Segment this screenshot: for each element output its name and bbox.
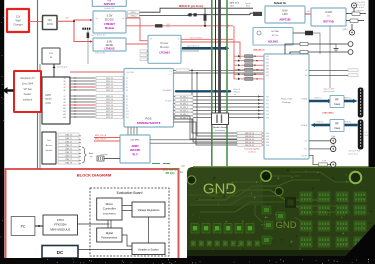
svg-text:G6: G6 (63, 90, 65, 92)
net labels top (128, 11, 140, 14)
svg-text:GN0: GN0 (266, 133, 269, 135)
svg-text:Connector x2: Connector x2 (348, 153, 358, 156)
svg-text:(GND): (GND) (343, 29, 348, 31)
svg-text:GP1: GP1 (266, 59, 269, 61)
dcdc 5.0V LT8610S (93, 38, 126, 51)
svg-text:P4: P4 (126, 90, 128, 92)
svg-text:on the xx: on the xx (248, 150, 255, 153)
wire ADM out B (150, 142, 237, 144)
svg-text:Package: Package (282, 102, 291, 104)
svg-text:DEBUG IF (p/n 4xxxx): DEBUG IF (p/n 4xxxx) (179, 5, 204, 8)
wire debug pair B (140, 13, 254, 15)
svg-text:G14: G14 (63, 117, 66, 119)
svg-text:-5 GHz: -5 GHz (325, 11, 333, 14)
svg-text:GN1: GN1 (266, 136, 269, 138)
block digital potentiometer (97, 228, 122, 242)
svg-text:SIG_UPT3_MON: SIG_UPT3_MON (190, 37, 203, 39)
12V wall charger (7, 9, 29, 32)
svg-text:P11: P11 (126, 114, 129, 116)
svg-text:Vin: Vin (96, 18, 98, 20)
svg-text:HDMI Tx+: HDMI Tx+ (344, 98, 351, 100)
svg-text:PiOS: PiOS (145, 117, 151, 121)
net label T7 (58, 158, 79, 161)
svg-text:V1: V1 (150, 39, 152, 41)
left black bar (0, 0, 4, 264)
svg-text:12V: 12V (16, 15, 21, 19)
wire input (104, 158, 120, 160)
raspberry pi note (14, 71, 41, 112)
svg-text:FTDI: FTDI (57, 218, 64, 222)
ferrite bead FB1 (253, 12, 262, 16)
downconverter ADMV (120, 135, 150, 163)
svg-text:In Stock 3rd: In Stock 3rd (95, 34, 106, 37)
svg-text:P0: P0 (126, 78, 128, 80)
svg-text:I.4.B: I.4.B (364, 132, 367, 134)
svg-text:CK: CK (305, 70, 307, 72)
block FTDI module (43, 215, 78, 235)
wire 3v3 to monitor (126, 18, 148, 41)
block voltage regulators (132, 202, 165, 217)
svg-text:"W"/Pi: "W"/Pi (45, 98, 52, 101)
wire FTDI-MC (78, 223, 110, 225)
net label GPB2 (234, 64, 238, 66)
svg-text:GPIO_2: GPIO_2 (131, 16, 137, 18)
svg-text:FT4232H: FT4232H (54, 223, 67, 227)
wire GPIO7 (70, 101, 96, 103)
svg-text:G11: G11 (63, 108, 66, 110)
svg-text:(later version): (later version) (324, 90, 335, 93)
svg-text:soldered: soldered (23, 99, 33, 102)
svg-text:Micro: Micro (106, 202, 114, 206)
PCB traces (195, 190, 330, 200)
svg-text:HDMI Tx+: HDMI Tx+ (314, 98, 321, 100)
wire sys clk (309, 70, 348, 72)
svg-text:Charger: Charger (13, 23, 23, 27)
svg-text:5.6V: 5.6V (282, 9, 288, 13)
svg-text:PS_MIO_5: PS_MIO_5 (180, 114, 188, 116)
svg-text:DC/DC: DC/DC (106, 44, 114, 47)
svg-text:GP2: GP2 (266, 62, 269, 64)
svg-text:LDO: LDO (282, 12, 287, 16)
svg-text:1u0 min grab: 1u0 min grab (57, 67, 68, 69)
svg-text:G4: G4 (63, 84, 65, 86)
RF coax coupler 2 (330, 120, 344, 132)
wire data2 (174, 103, 265, 105)
bus green B (226, 0, 228, 167)
PCB light patch (188, 168, 263, 206)
svg-text:GN3: GN3 (266, 142, 269, 144)
svg-text:LTC2991: LTC2991 (159, 51, 170, 55)
svg-text:GP5: GP5 (266, 72, 269, 74)
net label T8 (58, 161, 79, 164)
wire MC-VReg (122, 205, 132, 207)
svg-text:PS2: PS2 (266, 103, 269, 105)
ground GND1 (330, 44, 336, 48)
wire monitor out A (181, 38, 233, 40)
svg-text:LT8610S: LT8610S (104, 48, 114, 51)
svg-text:Zero 2W/4: Zero 2W/4 (22, 82, 34, 85)
svg-text:Default On: Default On (274, 2, 287, 5)
svg-text:12V: 12V (47, 18, 52, 22)
svg-text:GND_NL_04: GND_NL_04 (245, 145, 254, 147)
resistor R9 (319, 163, 328, 166)
SMA J11 (348, 50, 353, 55)
wire GPIO5 (70, 95, 96, 97)
svg-text:GATE: GATE (230, 5, 236, 8)
svg-text:OT CNKT: OT CNKT (165, 101, 172, 103)
svg-text:GP6: GP6 (266, 75, 269, 77)
wire data5 (174, 113, 265, 115)
svg-text:Coax: Coax (334, 126, 341, 130)
svg-text:Access: Access (46, 144, 52, 147)
svg-text:G9: G9 (63, 102, 65, 104)
svg-text:ADL5801: ADL5801 (268, 41, 279, 44)
svg-text:PC: PC (21, 225, 26, 229)
PCB photo board (187, 167, 375, 256)
wire GPIO11 (70, 113, 96, 115)
svg-text:Potentiometers: Potentiometers (101, 237, 118, 240)
PCB LED component row (191, 224, 199, 234)
RF coax coupler 1 (330, 96, 344, 108)
net label GND_NL1 (237, 135, 262, 138)
green rail line (37, 0, 39, 169)
boost converter ADP1607 (92, 0, 126, 6)
wire 5v to monitor (126, 43, 148, 45)
block DC (42, 246, 78, 259)
net label T0 (58, 133, 79, 136)
wire data6 (174, 117, 265, 119)
svg-text:UltraRAM B: UltraRAM B (163, 89, 173, 92)
PCB IC cluster right (300, 192, 312, 202)
svg-text:x.y: x.y (90, 156, 93, 158)
PCB small parts row (191, 241, 195, 246)
svg-text:GN4: GN4 (266, 145, 269, 147)
wire GPIO1 (70, 80, 96, 82)
sense connector strip (82, 28, 84, 30)
SMA J6 (351, 24, 353, 30)
svg-text:use: use (234, 94, 237, 96)
svg-text:rev B draft: rev B draft (356, 6, 364, 9)
svg-text:Raspberry Pi: Raspberry Pi (21, 77, 35, 80)
net label GND_NL0 (237, 132, 262, 135)
evaluation board dashed box (90, 188, 169, 256)
svg-text:GP3: GP3 (266, 66, 269, 68)
svg-text:ADP1607: ADP1607 (104, 2, 116, 6)
svg-text:600 MHz: 600 MHz (131, 140, 140, 142)
svg-text:5MW LED sel: 5MW LED sel (253, 50, 265, 52)
wire debug pair A (140, 8, 254, 12)
RF connector P2 (358, 120, 364, 150)
wire PC-FTDI (35, 225, 43, 227)
wire 12V distribution (57, 20, 91, 21)
svg-text:P3: P3 (126, 87, 128, 89)
svg-text:HDMI Rx-: HDMI Rx- (317, 122, 324, 124)
PCB QFP chip (285, 197, 296, 208)
wire 12V sense (126, 25, 233, 27)
svg-text:RF: RF (335, 98, 339, 102)
wire MCU-TX (174, 69, 265, 71)
svg-text:TRN conn kit: TRN conn kit (355, 4, 365, 7)
svg-text:MA: MA (179, 170, 183, 174)
small box 5V0 (42, 48, 60, 64)
PCB vias and specks (306, 171, 307, 172)
svg-text:(STM32F4RET6): (STM32F4RET6) (103, 214, 116, 216)
svg-text:7 Unit: 7 Unit (331, 135, 336, 138)
svg-text:"PL7": "PL7" (132, 154, 139, 157)
svg-text:TP5: TP5 (167, 27, 170, 29)
vertical branch B (197, 73, 237, 136)
bus black (215, 0, 217, 113)
svg-text:DC/DC: DC/DC (105, 18, 114, 22)
svg-text:Voltage Regulators: Voltage Regulators (138, 208, 161, 212)
svg-text:STM32H743ZGT6: STM32H743ZGT6 (137, 121, 161, 125)
svg-text:Wall: Wall (16, 19, 21, 23)
svg-text:P6: P6 (126, 99, 128, 101)
wire MCU bottom stubs (127, 127, 129, 135)
svg-text:PS5: PS5 (266, 114, 269, 116)
svg-text:Coax: Coax (334, 102, 341, 106)
wire GPIO2 (70, 83, 96, 85)
RX navy arrow (344, 124, 358, 127)
wire ldo out (305, 13, 311, 15)
block header or socket (132, 243, 165, 255)
svg-text:GPIO_24: GPIO_24 (106, 90, 113, 92)
wire MCU clock A (94, 137, 120, 139)
bus gray thick (218, 0, 221, 113)
RAM navy bus 1 (176, 90, 230, 92)
svg-text:PS6: PS6 (266, 117, 269, 119)
power monitor LTC2991 (148, 35, 181, 63)
svg-text:Controller: Controller (103, 207, 116, 211)
svg-text:G3: G3 (63, 81, 65, 83)
svg-text:Bandit's Board: Bandit's Board (213, 126, 227, 129)
wire GPIO4 (70, 89, 96, 91)
wire VCC (309, 148, 330, 150)
wire SYS BL (309, 156, 319, 165)
block diagram red frame (6, 169, 179, 259)
wire LO out B (346, 20, 350, 22)
svg-text:I.4.B #kit P TRN: I.4.B #kit P TRN (348, 150, 361, 153)
svg-text:(so far) 8M/4: (so far) 8M/4 (355, 1, 365, 4)
LO oscillator ROTY5B (311, 8, 346, 26)
net label GND_NL2 (237, 138, 262, 141)
svg-text:DC: DC (57, 250, 64, 255)
wire charger to 12V CON (29, 21, 43, 23)
block micro controller (97, 198, 122, 220)
wire pluto top B (290, 52, 348, 54)
wire CL3 (309, 140, 330, 142)
wire sense down (87, 30, 89, 64)
GPIO header connector (42, 77, 70, 124)
RF connector P1 (358, 88, 364, 118)
svg-text:Header: Header (46, 150, 53, 152)
wire data4 (174, 110, 265, 112)
svg-text:MINI MODULE: MINI MODULE (50, 228, 70, 232)
svg-text:GPS ALPHA: GPS ALPHA (162, 168, 177, 172)
12V connector J1 (43, 16, 58, 30)
svg-text:P9: P9 (126, 108, 128, 110)
svg-text:PS_MIO_3: PS_MIO_3 (180, 107, 188, 109)
svg-text:Vo: Vo (122, 18, 124, 20)
input connector (97, 156, 104, 161)
wire GPIO12 (70, 116, 96, 118)
net label T4 (58, 147, 79, 150)
svg-text:PS1: PS1 (266, 100, 269, 102)
svg-text:ADMV: ADMV (131, 145, 139, 148)
svg-text:G7: G7 (63, 96, 65, 98)
wire MCU-RX (174, 72, 265, 74)
svg-text:P12: P12 (126, 117, 129, 119)
monitor input labels (140, 50, 147, 53)
wire sys rst (309, 75, 348, 77)
right black bar (369, 0, 375, 167)
svg-text:(connector): (connector) (215, 129, 225, 132)
wire DC-Header (78, 249, 132, 251)
svg-text:Bank: Bank (89, 153, 94, 155)
svg-text:header: header (24, 93, 32, 96)
svg-text:"W" has: "W" has (23, 88, 32, 91)
wire LO gnd (329, 26, 331, 88)
PE6 gate driver box (253, 28, 293, 46)
svg-text:To provide together: To provide together (244, 148, 260, 151)
svg-text:X-MIL-R610: X-MIL-R610 (323, 113, 335, 115)
wire GPIO10 (70, 110, 96, 112)
svg-text:Module: Module (105, 26, 115, 30)
MCU PiOS STM32H743 (124, 69, 174, 128)
svg-text:S: S (178, 39, 179, 41)
wire pluto top A (285, 44, 348, 54)
svg-text:ACI 2x4: ACI 2x4 (272, 34, 278, 37)
bottom black strip (0, 258, 192, 264)
svg-text:CON: CON (45, 102, 51, 105)
net label T1 (58, 137, 79, 140)
mixer component (305, 31, 313, 36)
nested route wires (174, 116, 238, 139)
PCB hole center (275, 188, 283, 196)
svg-text:Default ON: Default ON (104, 7, 114, 10)
PCB mounting hole top middle (261, 171, 271, 181)
wire data1 (174, 99, 265, 101)
svg-text:LO: LO (327, 16, 330, 18)
svg-text:PS4: PS4 (266, 110, 269, 112)
svg-text:MCU_CLK_A: MCU_CLK_A (95, 134, 107, 137)
wire monitor aux (181, 50, 199, 52)
test access header (42, 132, 56, 164)
block PC (11, 217, 35, 236)
wire MCU clock B (94, 140, 120, 142)
wire GPIO0 (70, 77, 96, 79)
red fan bus (233, 26, 235, 79)
svg-text:P10: P10 (126, 111, 129, 113)
svg-text:1 mF: 1 mF (322, 160, 326, 162)
svg-text:GPIO_32: GPIO_32 (106, 117, 113, 119)
PCB top green silkscreen marks (152, 163, 160, 165)
black rail line (39, 64, 41, 169)
bank brace (82, 147, 87, 163)
net label GPB4 (234, 73, 238, 75)
svg-text:5C PE6: 5C PE6 (271, 31, 279, 33)
svg-text:G12: G12 (63, 111, 66, 113)
PCB mounting hole left (187, 176, 195, 184)
svg-text:GN2: GN2 (266, 139, 269, 141)
svg-text:GND: GND (275, 220, 296, 231)
svg-text:MCU_CLK_B: MCU_CLK_B (95, 139, 107, 141)
PCB middle cluster (262, 206, 271, 214)
bus green A (211, 0, 213, 167)
svg-text:P5: P5 (126, 96, 128, 98)
SMA J5 (353, 8, 355, 12)
net label T5 (58, 151, 79, 154)
svg-text:SYS BL: SYS BL (301, 156, 307, 158)
power arrow node (53, 64, 55, 77)
TX navy arrow (309, 100, 329, 103)
wire GPIO3 (70, 86, 96, 88)
SMA J9 (331, 162, 336, 167)
net label T6 (58, 154, 79, 157)
svg-text:CL 3: CL 3 (304, 141, 307, 143)
svg-text:G13: G13 (63, 114, 66, 116)
net label T2 (58, 140, 79, 143)
svg-text:Evaluation Board: Evaluation Board (117, 191, 143, 195)
svg-text:PS_MIO_4: PS_MIO_4 (180, 110, 188, 112)
net label GPB0 (234, 55, 238, 57)
svg-text:Pluto p Stle: Pluto p Stle (281, 98, 293, 101)
net label GND_NL4 (237, 144, 262, 147)
svg-text:G5: G5 (63, 87, 65, 89)
svg-text:P8: P8 (126, 105, 128, 107)
svg-text:PS0: PS0 (266, 96, 269, 98)
net label GND_NL3 (237, 141, 262, 144)
net label GPB1 (234, 60, 238, 62)
svg-text:P2: P2 (126, 84, 128, 86)
svg-text:5V0 / PWR: 5V0 / PWR (126, 72, 135, 74)
svg-text:DR 4(A): DR 4(A) (166, 172, 175, 175)
svg-text:HDMI Rx-: HDMI Rx- (345, 122, 352, 124)
net label GPB5 (234, 78, 238, 80)
wire GPIO red top (70, 71, 124, 73)
PCB mounting hole right (350, 172, 362, 184)
PCB bottom shadow (187, 250, 375, 256)
svg-text:GND: GND (203, 181, 237, 198)
svg-text:PS_MIO_0: PS_MIO_0 (180, 96, 188, 98)
svg-text:PS_MIO_2: PS_MIO_2 (180, 103, 188, 105)
SMA J8 (331, 146, 336, 151)
wire GPIO9 (70, 107, 96, 109)
svg-text:ADP7182: ADP7182 (279, 18, 291, 22)
dcdc 3.3V module LTM4627 (93, 11, 126, 33)
svg-text:BLOCK DIAGRAM: BLOCK DIAGRAM (77, 172, 112, 177)
corner cut (340, 224, 375, 262)
svg-text:G10: G10 (63, 105, 66, 107)
wire monitor out B (181, 42, 240, 59)
svg-text:Test: Test (47, 139, 51, 142)
svg-text:Digital: Digital (106, 231, 114, 235)
svg-text:Default ON: Default ON (95, 52, 105, 55)
svg-text:CON: CON (47, 22, 53, 26)
net label GPB3 (234, 69, 238, 71)
svg-text:Monitor: Monitor (160, 45, 169, 49)
svg-text:T B: T B (169, 71, 171, 73)
SDR module Pluto (264, 54, 309, 159)
svg-text:G2: G2 (63, 78, 65, 80)
SMA J7 (331, 138, 336, 143)
svg-text:P7: P7 (126, 102, 128, 104)
svg-text:Bead: Bead (246, 6, 250, 8)
wire LO out A (346, 13, 352, 15)
svg-text:G8: G8 (63, 99, 65, 101)
wire data3 (174, 106, 265, 108)
SMA J10 (348, 42, 353, 47)
